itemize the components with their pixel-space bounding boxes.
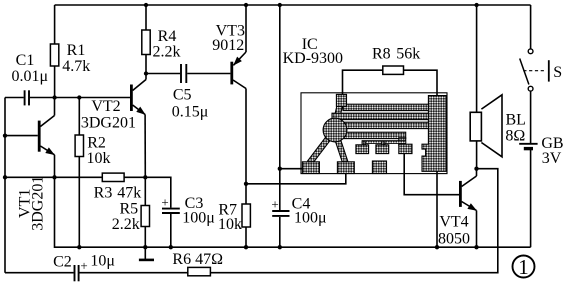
wire VT4 collector up (476, 169, 478, 176)
svg-text:0.01μ: 0.01μ (12, 68, 49, 85)
wire top supply rail (55, 4, 531, 6)
IC trace to bottom center pad (338, 139, 346, 163)
wire bottom rail left of C2 (5, 272, 74, 274)
svg-text:R2: R2 (87, 135, 106, 152)
wire VT3 collector down (245, 89, 247, 184)
switch S (528, 49, 533, 54)
IC right bus bar (422, 96, 446, 172)
svg-text:8050: 8050 (438, 231, 470, 248)
node junction (278, 3, 282, 7)
transistor VT3 9012 (230, 62, 233, 85)
IC middle pad 3 (399, 144, 412, 153)
wire VT1 base (5, 135, 38, 137)
svg-text:100μ: 100μ (294, 210, 327, 227)
resistor R4 2.2k (142, 30, 150, 55)
wire R4 bottom (145, 55, 147, 74)
node junction (3, 133, 7, 137)
node junction (278, 245, 282, 249)
resistor R3 47k (102, 173, 124, 181)
node junction (435, 245, 439, 249)
capacitor C5 0.15u (180, 64, 182, 83)
IC bottom pad 2 (337, 162, 354, 174)
svg-text:3DG201: 3DG201 (81, 115, 136, 132)
wire C4 top (279, 169, 281, 210)
IC bottom pad 1 (302, 162, 319, 174)
transistor VT2 3DG201 (130, 85, 133, 112)
node junction (244, 245, 248, 249)
transistor VT1 3DG201 (38, 121, 41, 152)
IC trace to top pad (336, 98, 342, 122)
node junction (474, 167, 478, 171)
wire ground rail (55, 177, 531, 247)
wire C3 bottom (170, 214, 172, 247)
resistor R5 2.2k (141, 206, 149, 227)
capacitor C1 0.01u (24, 90, 26, 105)
svg-text:S: S (553, 64, 562, 81)
wire left rail (4, 98, 6, 273)
wire to IC supply pad (280, 168, 303, 170)
wire bottom rail C2 to R6 (79, 272, 187, 274)
circled figure number 1 (513, 256, 535, 278)
svg-text:VT4: VT4 (439, 214, 468, 231)
wire R7 bottom (245, 227, 247, 247)
svg-text:56k: 56k (396, 46, 420, 63)
svg-text:3DG201: 3DG201 (30, 176, 47, 231)
resistor R7 10k (242, 204, 250, 227)
node junction (278, 167, 282, 171)
svg-text:+: + (80, 258, 87, 273)
ground symbol (144, 247, 146, 260)
transistor VT4 8050 (459, 181, 462, 207)
resistor R8 56k (383, 66, 404, 74)
svg-text:9012: 9012 (212, 37, 244, 54)
svg-text:VT2: VT2 (91, 98, 120, 115)
resistor R2 10k (75, 135, 83, 157)
IC jumper stub 2 (382, 142, 385, 145)
svg-text:R4: R4 (158, 28, 177, 45)
svg-text:BL: BL (505, 112, 525, 129)
svg-text:10μ: 10μ (90, 252, 115, 269)
wire R5 top (144, 177, 146, 205)
wire IC to VT4 base (404, 154, 459, 195)
svg-text:KD-9300: KD-9300 (283, 50, 343, 67)
IC bottom pad 3 (372, 161, 386, 174)
wire battery to ground rail (530, 149, 532, 248)
resistor R6 47ohm (188, 267, 211, 275)
battery GB 3V (519, 143, 537, 145)
svg-text:2.2k: 2.2k (112, 216, 140, 233)
wire emitter feedback line (5, 176, 102, 178)
IC trace 2 (332, 113, 429, 119)
IC jumper stub 1 (362, 142, 366, 145)
capacitor C2 10u (74, 265, 76, 281)
node junction (3, 175, 7, 179)
wire node to C5 (146, 73, 180, 75)
IC trace to bottom left pad (310, 136, 331, 163)
wire supply to IC pad line (279, 5, 281, 169)
node junction (474, 245, 478, 249)
wire R8 right leg (404, 70, 438, 95)
svg-text:+: + (271, 197, 278, 212)
svg-text:4.7k: 4.7k (62, 58, 90, 75)
resistor R1 4.7k (50, 44, 58, 66)
svg-text:47k: 47k (117, 185, 141, 202)
node junction (52, 175, 56, 179)
wire R2 bottom (78, 157, 80, 248)
IC trace 4 (332, 132, 406, 138)
svg-text:0.15μ: 0.15μ (172, 104, 209, 121)
svg-text:R1: R1 (67, 42, 86, 59)
wire switch riser (530, 5, 532, 49)
wire R8 left leg (343, 70, 383, 95)
IC top pad (336, 94, 346, 106)
IC thin jumper (362, 141, 406, 144)
wire R1 top (54, 5, 56, 44)
op-amp U1 IC KD-9300 outline box (301, 93, 447, 174)
node junction (52, 95, 56, 99)
wire R5 bottom (144, 227, 146, 248)
IC trace 4 drop to pad (399, 138, 406, 145)
node junction (244, 182, 248, 186)
wire speaker top (476, 5, 478, 112)
node junction (144, 71, 148, 75)
wire R2 top (78, 98, 80, 136)
wire C5 to VT3 base (187, 73, 230, 75)
IC middle pad 1 (356, 145, 369, 154)
svg-text:100μ: 100μ (182, 210, 215, 227)
svg-text:R6 47Ω: R6 47Ω (172, 251, 223, 268)
node junction (143, 175, 147, 179)
wire IC pad2 to R7 node (246, 173, 346, 184)
wire speaker bottom (476, 141, 478, 169)
svg-text:R8: R8 (372, 46, 391, 63)
wire R7 top (245, 184, 247, 204)
wire VT3 emitter top (245, 5, 247, 52)
capacitor C4 100u (272, 210, 289, 212)
node junction (244, 3, 248, 7)
svg-text:C5: C5 (173, 86, 192, 103)
svg-text:3V: 3V (542, 150, 562, 167)
wire C1 to VT2 base (30, 97, 130, 99)
svg-text:R5: R5 (119, 201, 138, 218)
node junction (77, 95, 81, 99)
speaker BL 8ohm (470, 112, 481, 141)
svg-text:1: 1 (518, 255, 529, 279)
wire bottom rail R6 to right riser (210, 169, 497, 273)
svg-text:C2: C2 (53, 254, 72, 271)
wire VT4 emitter down (476, 211, 478, 248)
IC middle pad 2 (376, 145, 389, 154)
svg-text:2.2k: 2.2k (153, 44, 181, 61)
svg-text:10k: 10k (87, 150, 111, 167)
wire R1 bottom (54, 66, 56, 98)
capacitor C3 100u (162, 208, 180, 210)
IC trace 3 (332, 122, 429, 128)
wire C4 bottom (279, 217, 281, 247)
wire switch to battery (530, 91, 532, 144)
wire node to C3 (145, 177, 171, 207)
node junction (474, 3, 478, 7)
svg-text:R3: R3 (94, 185, 113, 202)
node junction (169, 245, 173, 249)
node junction (77, 245, 81, 249)
IC trace 1 (343, 104, 429, 110)
node junction (144, 3, 148, 7)
node junction (143, 245, 147, 249)
svg-text:+: + (161, 195, 168, 210)
wire R3 to node (124, 176, 145, 178)
svg-text:10k: 10k (218, 216, 242, 233)
svg-text:C1: C1 (16, 52, 35, 69)
wire C1 input line (5, 97, 24, 99)
wire R4 top (145, 5, 147, 30)
svg-text:8Ω: 8Ω (505, 128, 525, 145)
wire IC ground leg (436, 172, 438, 248)
IC chip blob (323, 118, 347, 142)
